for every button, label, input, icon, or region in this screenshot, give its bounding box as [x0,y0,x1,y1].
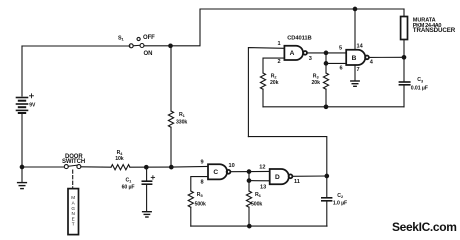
svg-text:SeekIC.com: SeekIC.com [392,220,457,234]
svg-text:C1: C1 [126,177,133,183]
svg-text:SWITCH: SWITCH [62,159,85,165]
svg-text:1.0 µF: 1.0 µF [333,201,347,207]
svg-text:500k: 500k [195,201,206,207]
svg-text:9: 9 [201,160,204,166]
svg-text:2: 2 [278,59,281,65]
wire B output to node [369,56,404,58]
svg-text:A: A [290,50,295,57]
wire pin1 feedback: left vertical [248,48,284,137]
wire C3 bottom to rail [403,86,405,107]
node pin14 on top rail [353,7,357,11]
svg-text:1: 1 [278,41,281,47]
ground battery [18,183,27,189]
wire battery top to switch [22,45,130,47]
magnet box [68,189,79,235]
nand gate C [208,164,230,179]
node R1 bottom [170,165,174,169]
wire pin6 [326,62,346,64]
gate letters [213,50,356,181]
bottom feedback rail [191,225,327,227]
dashed link to magnet [72,170,74,188]
svg-text:3: 3 [309,56,312,62]
capacitor C1 60uF [146,167,148,181]
node R6 bottom [248,224,252,228]
resistor R4 10k (horizontal) [111,165,130,170]
resistor R5 500k [188,191,193,207]
wire R4 to C1 node [130,166,171,168]
svg-text:N: N [72,211,75,216]
wire door switch to R4 [81,166,111,168]
wire pin8 to R5 [191,177,208,191]
wire top rail down to transducer [403,9,405,17]
svg-text:20k: 20k [312,80,321,86]
resistor R2 20k [260,73,265,89]
wire to gate C pin9 [171,165,208,168]
label DOOR SWITCH [62,154,85,165]
node top rail / R1 junction [169,44,173,48]
wire pin14 to top rail [354,9,356,50]
svg-text:7: 7 [357,67,360,73]
svg-text:M: M [71,195,75,200]
svg-text:S1: S1 [118,35,125,41]
switch S1 [129,37,144,47]
resistor R6 500k [248,181,250,191]
svg-text:14: 14 [357,44,364,50]
svg-text:B: B [352,55,357,62]
nand gate A CD4011B [284,46,307,60]
wire pin2 to R2 [263,58,284,73]
svg-text:330k: 330k [176,119,187,125]
svg-text:R5: R5 [197,192,204,198]
door switch contacts [64,165,68,169]
svg-text:11: 11 [294,179,300,185]
svg-text:0.01 µF: 0.01 µF [411,86,428,92]
capacitor C2 1.0uF [326,176,328,197]
wire D output to C2 node [292,175,326,177]
transducer MURATA PKM 24-4A0 [401,17,408,40]
svg-text:6: 6 [340,66,343,72]
nand gate B [346,50,369,65]
svg-text:C2: C2 [337,193,344,199]
node D output / feedback / C2 [325,174,329,178]
svg-text:10k: 10k [115,156,124,162]
svg-text:ON: ON [144,51,153,57]
wire A output to B inputs [307,52,346,54]
wire battery vertical top [21,46,23,96]
svg-text:OFF: OFF [143,35,155,41]
svg-text:R1: R1 [179,112,186,118]
svg-text:5: 5 [339,46,342,52]
svg-text:R6: R6 [255,192,262,198]
node C1 [145,165,149,169]
wire C output to D pin12 [231,170,270,172]
svg-text:CD4011B: CD4011B [287,35,311,41]
ground C1 [143,212,152,217]
pin numbers [201,41,374,191]
node R3 on rail [324,105,328,109]
door switch line [22,166,64,168]
svg-text:10: 10 [229,163,235,169]
svg-text:C: C [213,169,218,176]
svg-text:C3: C3 [417,77,424,83]
label MURATA transducer [413,18,456,35]
svg-text:12: 12 [259,165,265,171]
battery BT1 9V [17,98,28,114]
resistor R1 330k [170,46,172,111]
nand gate D [270,169,293,184]
svg-text:G: G [71,206,75,211]
wire junction to top rail [171,9,405,46]
op rail (oscillator feedback rail) [263,106,404,108]
wire pin7 to ground [354,65,356,81]
svg-text:20k: 20k [270,80,279,86]
wire battery ground stub [21,167,23,182]
svg-text:500k: 500k [251,201,262,207]
node battery / door line [20,165,24,169]
wire transducer to node [403,40,405,58]
svg-text:60 µF: 60 µF [122,184,135,190]
capacitor C3 0.01uF [403,59,405,81]
svg-text:TRANSDUCER: TRANSDUCER [413,27,456,34]
node transducer / pin4 / C3 [402,56,406,60]
ground pin7 [351,81,359,86]
svg-text:R3: R3 [313,73,320,79]
wire switch to junction [144,45,171,47]
svg-text:8: 8 [201,180,204,186]
C1 plus sign [151,176,154,179]
svg-text:T: T [72,222,75,227]
svg-text:R2: R2 [271,73,278,79]
magnet letters [71,195,75,227]
wire pin13 [249,180,270,182]
svg-text:D: D [275,174,280,181]
wire feedback horizontal to D output [248,137,326,176]
svg-text:E: E [72,216,75,221]
battery plus sign [30,94,34,98]
svg-text:13: 13 [260,185,266,191]
resistor R3 20k [325,63,327,73]
svg-text:9V: 9V [29,103,36,109]
wire battery bottom [21,114,23,167]
